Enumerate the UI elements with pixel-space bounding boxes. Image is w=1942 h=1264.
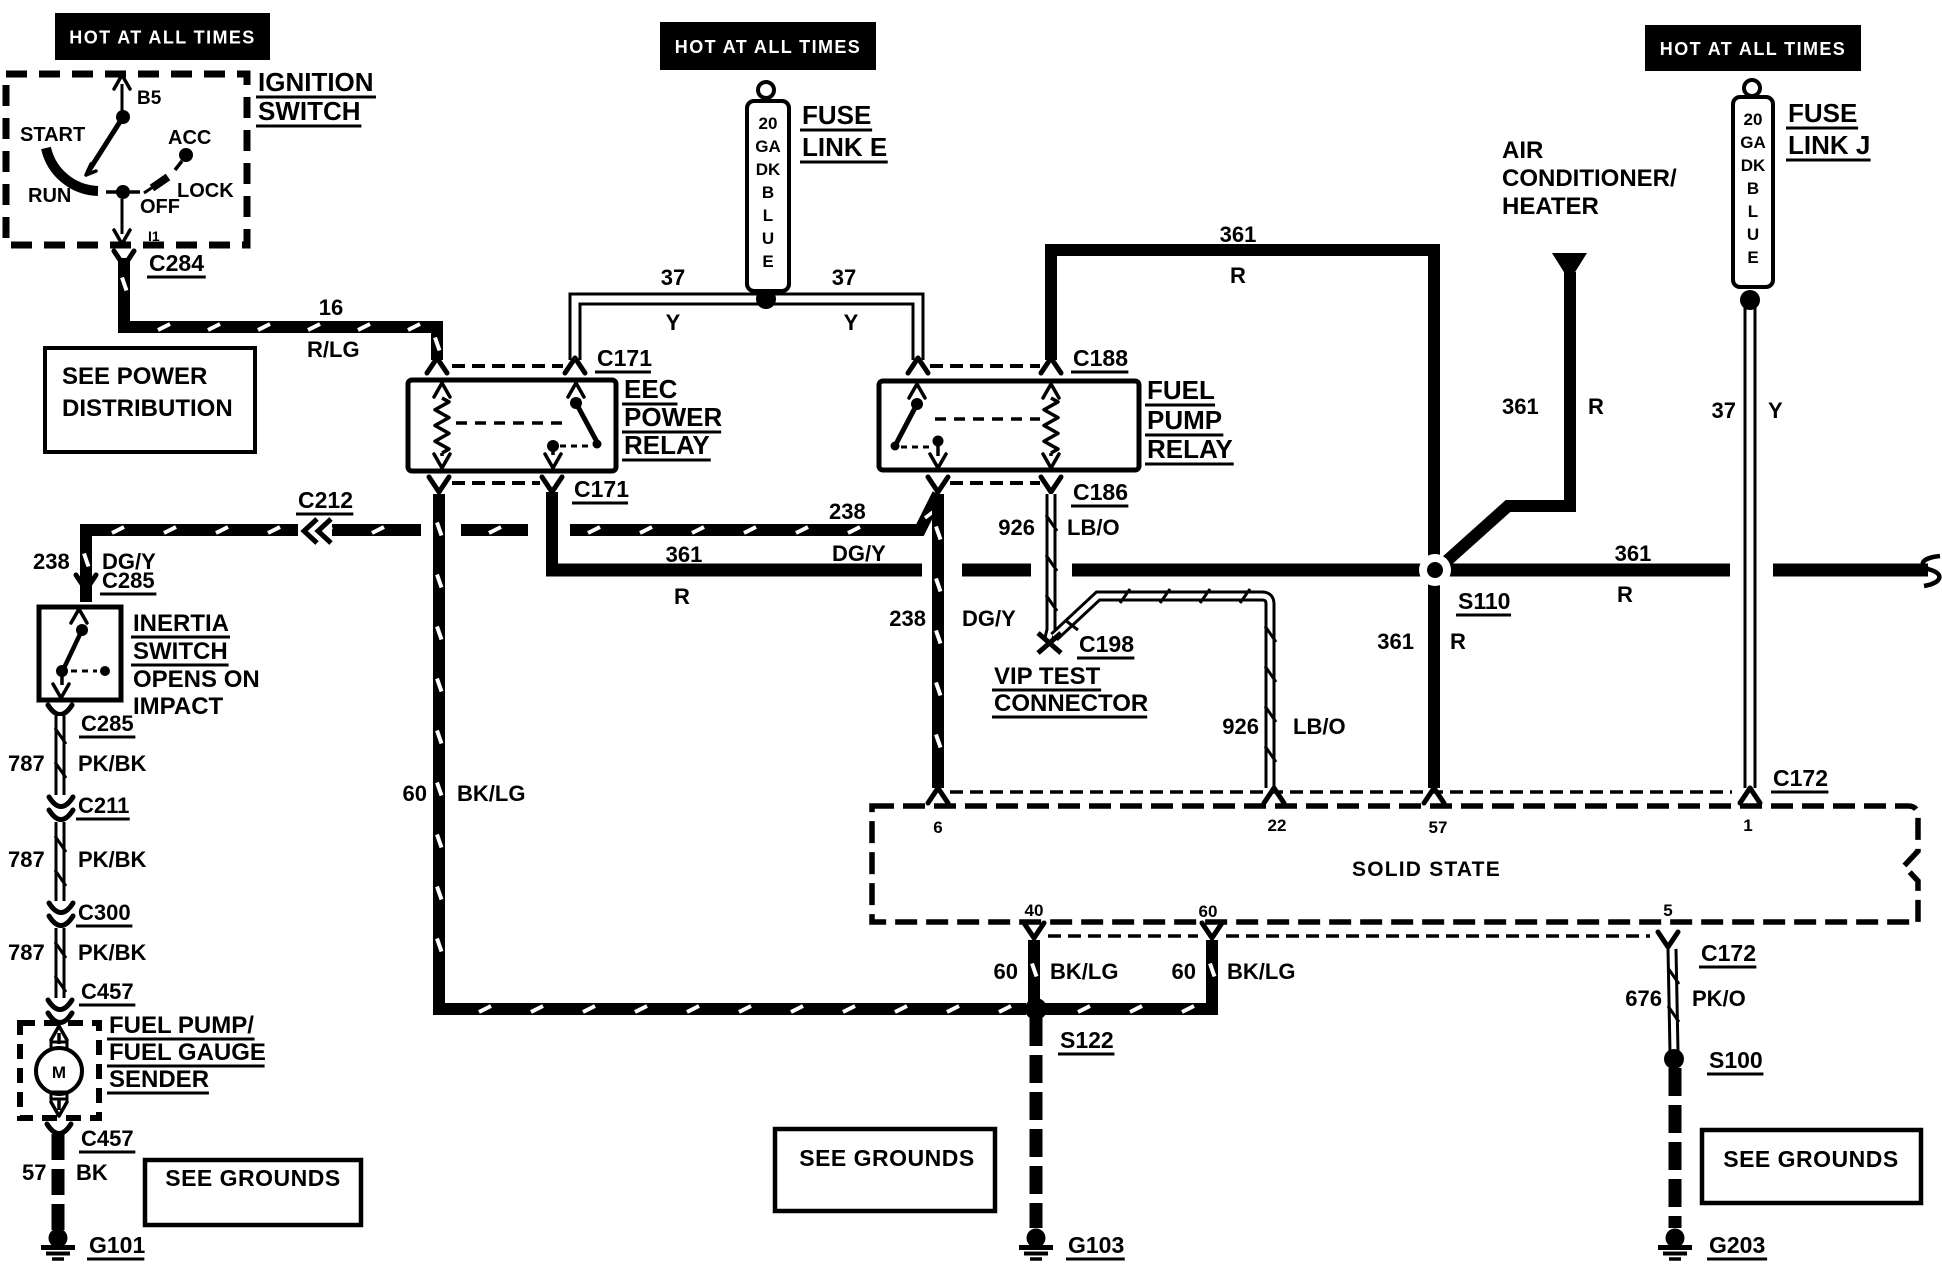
svg-text:R: R — [1230, 263, 1246, 288]
svg-text:GA: GA — [755, 137, 781, 156]
svg-text:5: 5 — [1663, 901, 1672, 920]
svg-text:C285: C285 — [81, 711, 134, 736]
svg-text:FUEL PUMP/: FUEL PUMP/ — [109, 1012, 254, 1039]
fuse link J (20 GA DK BLUE) — [1744, 80, 1760, 96]
wire 37 Y (fuse link E to EEC power relay) — [575, 299, 766, 360]
svg-text:6: 6 — [933, 818, 942, 837]
wire 57 BK (sender to ground G101) — [52, 1134, 65, 1230]
svg-text:IGNITION: IGNITION — [258, 67, 374, 97]
EEC relay switch — [568, 383, 584, 397]
power feed label: HOT AT ALL TIMES (middle) — [660, 22, 876, 70]
svg-text:PK/BK: PK/BK — [78, 940, 147, 965]
svg-text:LOCK: LOCK — [177, 180, 234, 202]
svg-text:C186: C186 — [1073, 479, 1128, 505]
svg-text:40: 40 — [1025, 901, 1044, 920]
svg-text:PK/O: PK/O — [1692, 986, 1746, 1011]
svg-text:676: 676 — [1625, 986, 1662, 1011]
svg-text:Y: Y — [1768, 398, 1783, 423]
svg-text:R: R — [1617, 582, 1633, 607]
pin 1 connector — [1740, 788, 1760, 803]
svg-text:SENDER: SENDER — [109, 1066, 209, 1093]
svg-text:C457: C457 — [81, 1126, 134, 1151]
svg-text:Y: Y — [666, 310, 681, 335]
svg-text:DK: DK — [1741, 156, 1766, 175]
svg-text:238: 238 — [33, 549, 70, 574]
svg-text:HOT AT ALL TIMES: HOT AT ALL TIMES — [1660, 39, 1846, 59]
wire 926 LB/O (fuel pump relay C186 down to C198) — [1049, 494, 1051, 638]
svg-text:60: 60 — [1172, 959, 1196, 984]
svg-text:SEE GROUNDS: SEE GROUNDS — [1723, 1146, 1898, 1172]
svg-text:LINK E: LINK E — [802, 132, 887, 162]
svg-text:C300: C300 — [78, 900, 131, 925]
svg-text:C171: C171 — [574, 476, 629, 502]
inertia switch (box) — [39, 607, 121, 700]
ground G203 — [1666, 1229, 1685, 1248]
air conditioner / heater feed arrow — [1552, 253, 1587, 281]
svg-text:SEE POWER: SEE POWER — [62, 363, 207, 390]
svg-text:57: 57 — [22, 1160, 46, 1185]
continuation break at right edge — [1923, 556, 1940, 586]
ignition switch pivot contact — [116, 110, 130, 124]
fuel pump relay switch — [909, 384, 925, 398]
svg-text:CONNECTOR: CONNECTOR — [994, 690, 1148, 717]
pin 57 connector — [1424, 788, 1444, 803]
svg-text:ACC: ACC — [168, 127, 211, 149]
svg-text:57: 57 — [1429, 818, 1448, 837]
svg-text:G101: G101 — [89, 1232, 145, 1258]
svg-text:60: 60 — [1199, 902, 1218, 921]
splice S110 (ring) — [1419, 554, 1451, 586]
svg-text:FUSE: FUSE — [802, 100, 871, 130]
svg-text:C171: C171 — [597, 345, 652, 371]
svg-text:20: 20 — [759, 114, 778, 133]
connector C188 (top, into fuel pump relay) — [908, 358, 928, 373]
wire 37 Y (fuse link E to fuel pump relay) — [766, 299, 918, 360]
svg-text:B: B — [1747, 179, 1759, 198]
svg-text:DK: DK — [756, 160, 781, 179]
svg-text:37: 37 — [832, 265, 856, 290]
svg-text:361: 361 — [1220, 222, 1257, 247]
pin 22 connector — [1264, 788, 1284, 803]
wire 787 PK/BK (inertia switch to C211) — [55, 716, 66, 795]
wire 60 BK/LG (pin 60 to S122) — [1044, 940, 1212, 1009]
svg-text:SEE GROUNDS: SEE GROUNDS — [165, 1165, 340, 1191]
wire 16 R/LG (ignition to EEC power relay) — [124, 258, 437, 360]
wire 361 R (main horizontal bus) — [546, 492, 558, 570]
connector C171 (bottom of EEC power relay) — [429, 477, 449, 492]
svg-text:R: R — [1588, 394, 1604, 419]
ignition switch wiper arm — [88, 117, 123, 172]
svg-text:U: U — [762, 229, 774, 248]
svg-text:BK/LG: BK/LG — [1227, 959, 1295, 984]
svg-text:SWITCH: SWITCH — [258, 96, 361, 126]
ignition switch LOCK contact — [152, 177, 168, 188]
svg-text:787: 787 — [8, 940, 45, 965]
svg-text:PK/BK: PK/BK — [78, 751, 147, 776]
fuel pump motor M1 — [51, 1026, 67, 1040]
svg-text:B5: B5 — [137, 88, 162, 109]
wire 238 DG/Y (horizontal run from inertia switch to fuel pump relay) — [86, 530, 421, 602]
ignition switch terminal I1 (arrow down) — [121, 199, 124, 234]
wire 787 PK/BK (C211 to C300) — [55, 822, 66, 901]
power feed label: HOT AT ALL TIMES (right) — [1645, 25, 1861, 71]
EEC relay control dashed link — [456, 421, 566, 425]
svg-text:C457: C457 — [81, 979, 134, 1004]
svg-text:C285: C285 — [102, 568, 155, 593]
svg-text:361: 361 — [666, 542, 703, 567]
ignition switch ACC contact — [179, 148, 193, 162]
svg-text:LB/O: LB/O — [1293, 714, 1346, 739]
connector C285 (below inertia switch) — [48, 705, 72, 715]
EEC relay coil — [434, 383, 450, 397]
svg-text:L: L — [763, 206, 773, 225]
connector line (pins 40/60/5) — [1048, 934, 1198, 938]
svg-text:LINK J: LINK J — [1788, 130, 1870, 160]
svg-text:SEE GROUNDS: SEE GROUNDS — [799, 1145, 974, 1171]
fuel pump relay U2 (box) — [879, 381, 1139, 470]
svg-text:CONDITIONER/: CONDITIONER/ — [1502, 165, 1677, 192]
splice under fuse link E — [756, 289, 776, 309]
connector C186 (bottom of fuel pump relay) — [928, 477, 948, 492]
svg-text:C198: C198 — [1079, 631, 1134, 657]
inline connector C300 — [49, 903, 73, 913]
svg-text:60: 60 — [994, 959, 1018, 984]
svg-text:BK/LG: BK/LG — [457, 781, 525, 806]
svg-text:DISTRIBUTION: DISTRIBUTION — [62, 395, 233, 422]
butt connector C198 (VIP test connector) — [1038, 633, 1061, 653]
svg-text:RUN: RUN — [28, 185, 71, 207]
EEC power relay U1 (box) — [408, 380, 616, 471]
connector C171 (top, into EEC power relay) — [427, 358, 447, 373]
wire 60 BK/LG (pin 40 to S122) — [1028, 940, 1040, 1004]
connector C172 (pin 5) — [1658, 932, 1678, 947]
svg-text:361: 361 — [1377, 629, 1414, 654]
svg-text:C172: C172 — [1701, 940, 1756, 966]
svg-text:PUMP: PUMP — [1147, 405, 1222, 435]
inline connector C457 (top) — [48, 1000, 72, 1010]
svg-text:G203: G203 — [1709, 1232, 1765, 1258]
ground G103 — [1027, 1229, 1046, 1248]
wire 361 R (S110 down to solid state pin 57) — [1428, 574, 1440, 788]
svg-text:C188: C188 — [1073, 345, 1128, 371]
svg-text:HEATER: HEATER — [1502, 193, 1599, 220]
inertia switch top terminal arrow — [71, 609, 87, 623]
svg-text:BK/LG: BK/LG — [1050, 959, 1118, 984]
ignition switch (dashed box) — [6, 74, 247, 245]
svg-text:G103: G103 — [1068, 1232, 1124, 1258]
inline connector C212 — [298, 516, 332, 545]
svg-text:361: 361 — [1502, 394, 1539, 419]
inertia switch arm — [64, 630, 82, 668]
wire 676 PK/O (C172 pin 5 to S100) — [1672, 949, 1674, 1052]
svg-text:S110: S110 — [1458, 588, 1510, 614]
svg-text:HOT AT ALL TIMES: HOT AT ALL TIMES — [69, 28, 255, 48]
ignition switch detent arc — [46, 148, 98, 191]
svg-text:16: 16 — [319, 295, 343, 320]
wire 238 DG/Y (fuel pump relay C186 down to solid state pin 6) — [932, 494, 944, 788]
svg-text:1: 1 — [1743, 816, 1752, 835]
fuel pump relay control dashed link — [935, 417, 1040, 421]
box SEE GROUNDS (left) — [145, 1160, 361, 1225]
svg-text:R: R — [674, 584, 690, 609]
wire BK (S122 to ground G103) — [1030, 1018, 1043, 1228]
svg-text:FUSE: FUSE — [1788, 98, 1857, 128]
connector C284 — [114, 251, 134, 266]
svg-text:EEC: EEC — [624, 374, 678, 404]
svg-text:361: 361 — [1615, 541, 1652, 566]
inertia switch bottom terminal arrow — [60, 671, 64, 685]
svg-text:DG/Y: DG/Y — [832, 541, 886, 566]
svg-text:START: START — [20, 124, 85, 146]
pin 6 connector — [928, 788, 948, 803]
svg-text:S122: S122 — [1060, 1027, 1114, 1053]
svg-text:926: 926 — [998, 515, 1035, 540]
svg-text:20: 20 — [1744, 110, 1763, 129]
svg-text:Y: Y — [844, 310, 859, 335]
box SEE GROUNDS (middle) — [775, 1129, 995, 1211]
svg-text:238: 238 — [829, 499, 866, 524]
pin 40 connector — [1024, 923, 1044, 938]
power feed label: HOT AT ALL TIMES (left) — [55, 13, 270, 60]
svg-text:FUEL: FUEL — [1147, 375, 1215, 405]
solid state module (dashed box) — [872, 806, 1918, 922]
svg-text:PK/BK: PK/BK — [78, 847, 147, 872]
svg-text:INERTIA: INERTIA — [133, 610, 229, 637]
svg-text:GA: GA — [1740, 133, 1766, 152]
connector C285 (into inertia switch) — [76, 575, 96, 590]
ignition switch RUN contact — [116, 185, 130, 199]
svg-text:AIR: AIR — [1502, 137, 1543, 164]
svg-text:OPENS ON: OPENS ON — [133, 666, 260, 693]
svg-text:RELAY: RELAY — [624, 430, 710, 460]
pin 60 connector — [1202, 923, 1222, 938]
wire 60 BK/LG (EEC relay C171 down and across to S122) — [439, 494, 1026, 1009]
svg-text:POWER: POWER — [624, 402, 722, 432]
svg-text:926: 926 — [1222, 714, 1259, 739]
svg-text:VIP TEST: VIP TEST — [994, 663, 1101, 690]
ignition switch terminal B5 (arrow up) — [114, 75, 130, 89]
ground G101 — [49, 1229, 68, 1248]
connector C457 (below sender) — [47, 1124, 71, 1134]
svg-text:R/LG: R/LG — [307, 337, 360, 362]
svg-text:C172: C172 — [1773, 765, 1828, 791]
svg-text:238: 238 — [889, 606, 926, 631]
svg-text:22: 22 — [1268, 816, 1287, 835]
svg-text:L: L — [1748, 202, 1758, 221]
svg-text:R: R — [1450, 629, 1466, 654]
svg-text:787: 787 — [8, 751, 45, 776]
svg-text:SOLID STATE: SOLID STATE — [1352, 858, 1501, 881]
wire 787 PK/BK (C300 to C457) — [55, 928, 66, 998]
fuel pump relay coil — [1043, 384, 1059, 398]
splice S100 — [1664, 1049, 1684, 1069]
svg-text:SWITCH: SWITCH — [133, 638, 228, 665]
inertia switch lower contact — [56, 665, 68, 677]
svg-text:37: 37 — [1712, 398, 1736, 423]
svg-text:U: U — [1747, 225, 1759, 244]
wire 37 Y (fuse link J to solid state pin 1) — [1744, 300, 1757, 788]
splice under fuse link J — [1740, 290, 1760, 310]
svg-text:787: 787 — [8, 847, 45, 872]
splice S122 — [1025, 998, 1047, 1020]
svg-text:OFF: OFF — [140, 196, 180, 218]
svg-text:C211: C211 — [78, 793, 129, 818]
svg-text:I1: I1 — [148, 228, 160, 244]
connector line (pins 6/22/57/1) — [950, 790, 1732, 794]
box SEE POWER DISTRIBUTION — [45, 348, 255, 452]
svg-text:S100: S100 — [1709, 1047, 1763, 1073]
inline connector C211 — [49, 797, 73, 807]
svg-text:RELAY: RELAY — [1147, 434, 1233, 464]
wire 361 R (A/C heater branch) — [1440, 272, 1570, 567]
svg-text:60: 60 — [403, 781, 427, 806]
svg-text:37: 37 — [661, 265, 685, 290]
svg-text:B: B — [762, 183, 774, 202]
svg-text:E: E — [1747, 248, 1758, 267]
svg-text:LB/O: LB/O — [1067, 515, 1120, 540]
wire 361 R (fuel pump relay feed, top run) — [1051, 250, 1434, 566]
svg-text:E: E — [762, 252, 773, 271]
svg-text:M: M — [52, 1063, 66, 1082]
wire 926 LB/O (C198 up to solid state pin 22) — [1054, 596, 1270, 788]
box SEE GROUNDS (right) — [1702, 1130, 1921, 1203]
svg-text:C212: C212 — [298, 487, 353, 513]
svg-text:BK: BK — [76, 1160, 108, 1185]
wire BK (S100 to ground G203) — [1669, 1068, 1682, 1228]
svg-text:HOT AT ALL TIMES: HOT AT ALL TIMES — [675, 37, 861, 57]
svg-text:FUEL GAUGE: FUEL GAUGE — [109, 1039, 266, 1066]
fuel pump / fuel gauge sender (dashed box) — [20, 1023, 99, 1118]
svg-text:C284: C284 — [149, 250, 204, 276]
svg-text:IMPACT: IMPACT — [133, 693, 224, 720]
inertia switch pivot — [76, 624, 88, 636]
fuse link E (20 GA DK BLUE) — [758, 82, 774, 98]
svg-text:DG/Y: DG/Y — [962, 606, 1016, 631]
